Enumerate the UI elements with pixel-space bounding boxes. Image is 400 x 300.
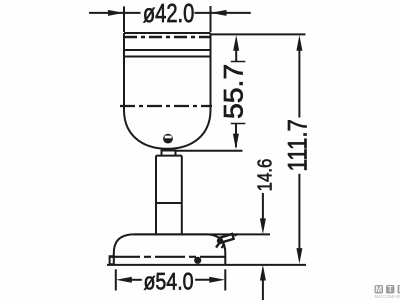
- dim 55.7 bottom extension line: [176, 150, 243, 152]
- base side screw detail: [216, 234, 238, 248]
- svg-text:ø54.0: ø54.0: [143, 268, 193, 296]
- base screw dot: [194, 257, 201, 264]
- top extension line from head to 111.7: [211, 33, 306, 35]
- collar bottom / stem top line: [156, 155, 182, 157]
- stem joint line: [156, 202, 182, 204]
- base center dash-dot line: [110, 256, 226, 258]
- dim 14.6 upper line and arrowhead: [262, 193, 264, 220]
- svg-text:T: T: [388, 285, 393, 294]
- dim 14.6 lower arrowhead and tail to page bottom: [260, 265, 266, 281]
- svg-text:M: M: [375, 285, 382, 294]
- lamp head rim seam line: [124, 56, 211, 58]
- stem outline: [156, 156, 182, 234]
- dim Ø42.0 left dimension line: [89, 12, 141, 14]
- svg-text:111.7: 111.7: [284, 119, 313, 171]
- svg-text:55.7: 55.7: [219, 64, 249, 119]
- svg-text:ø42.0: ø42.0: [143, 0, 194, 28]
- dim Ø54.0 right extension line: [224, 269, 226, 290]
- base dome top line extended right as 14.6 extension line: [134, 233, 270, 235]
- svg-text:MOCOMARINESTORE: MOCOMARINESTORE: [375, 294, 400, 300]
- knob screw on head bottom: [163, 134, 173, 144]
- dim Ø54.0 left arrowhead and line: [116, 277, 132, 283]
- dim 111.7 lower line and arrowhead: [298, 174, 300, 251]
- watermark logo squares: [375, 285, 400, 300]
- dim Ø42.0 right extension line: [210, 6, 212, 32]
- lamp head rim center dash-dot line: [124, 36, 211, 38]
- svg-text:14.6: 14.6: [253, 159, 276, 192]
- dim 111.7 top arrowhead and line: [296, 35, 302, 51]
- collar between head and stem: [162, 151, 176, 156]
- dim Ø54.0 left extension line: [115, 269, 117, 290]
- dim Ø42.0 right dimension line: [195, 12, 251, 14]
- lamp head rim lower line: [124, 49, 211, 51]
- dim 55.7 top arrowhead and line: [233, 35, 239, 51]
- dim Ø42.0 right arrowhead: [211, 10, 227, 16]
- base bottom line extended right as extension line: [107, 264, 306, 266]
- dim 55.7 lower tick: [231, 123, 246, 125]
- base left tab: [110, 256, 114, 264]
- dim 55.7 lower line and arrowhead: [235, 124, 237, 148]
- base dome outline: [114, 234, 226, 265]
- lamp head body outline with U-shaped bottom: [124, 33, 211, 149]
- dim Ø42.0 left arrowhead: [108, 10, 124, 16]
- dim 55.7 upper tick: [231, 61, 246, 63]
- lamp head mid dash-dot center line: [120, 105, 212, 107]
- lamp head top line: [124, 32, 211, 34]
- dim Ø54.0 right line and arrowhead: [195, 279, 212, 281]
- dim Ø42.0 left extension line: [123, 6, 125, 32]
